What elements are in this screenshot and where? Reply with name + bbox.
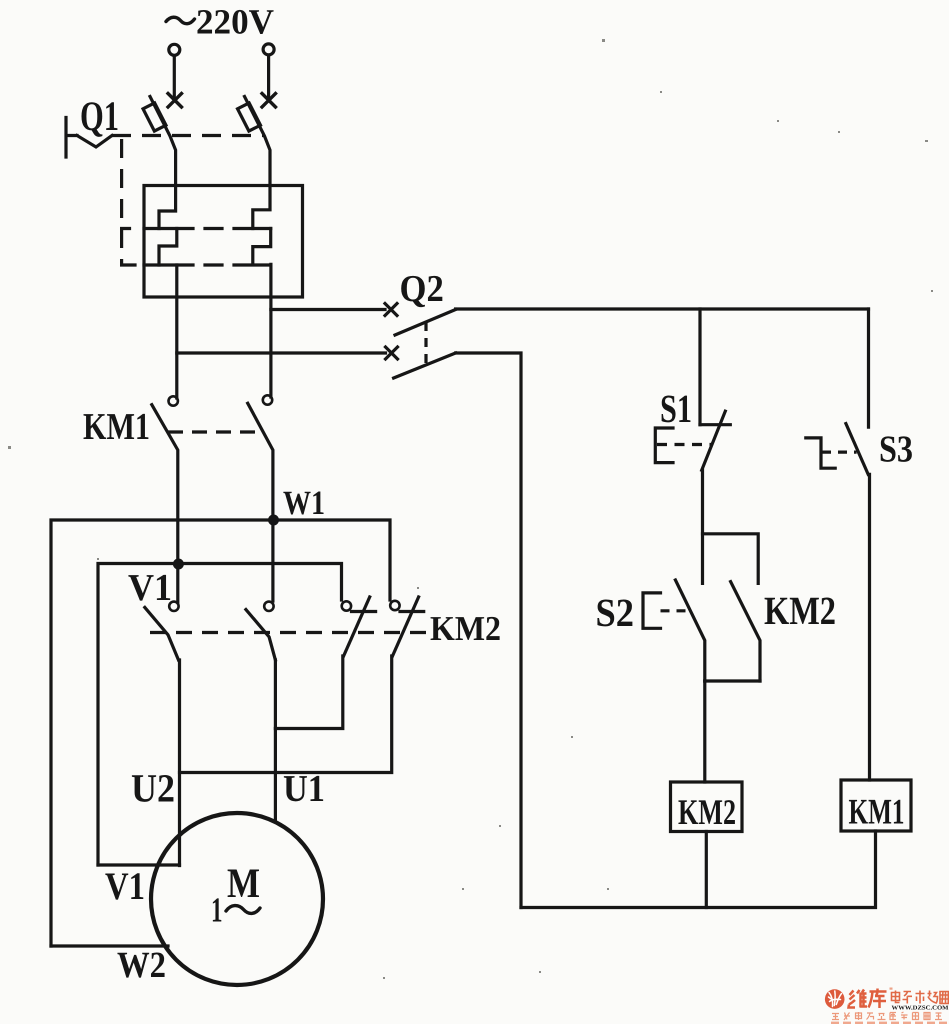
svg-text:S2: S2 <box>596 590 635 635</box>
svg-text:S1: S1 <box>660 386 692 431</box>
svg-text:KM1: KM1 <box>849 792 905 832</box>
svg-text:V1: V1 <box>105 865 145 908</box>
svg-text:1: 1 <box>211 891 223 930</box>
svg-text:KM1: KM1 <box>83 406 150 448</box>
svg-text:Q1: Q1 <box>80 94 119 140</box>
svg-text:U1: U1 <box>283 768 325 810</box>
svg-text:U2: U2 <box>131 766 175 811</box>
svg-text:WWW.DZSC.COM: WWW.DZSC.COM <box>892 1006 949 1012</box>
svg-text:KM2: KM2 <box>430 609 501 648</box>
svg-text:S3: S3 <box>879 429 913 471</box>
svg-text:220V: 220V <box>196 2 274 42</box>
svg-text:KM2: KM2 <box>678 792 736 832</box>
svg-text:M: M <box>227 861 260 907</box>
svg-text:W2: W2 <box>117 945 166 986</box>
svg-text:KM2: KM2 <box>764 588 836 633</box>
svg-text:Q2: Q2 <box>400 268 444 310</box>
svg-text:V1: V1 <box>128 567 172 609</box>
svg-text:W1: W1 <box>283 485 325 522</box>
